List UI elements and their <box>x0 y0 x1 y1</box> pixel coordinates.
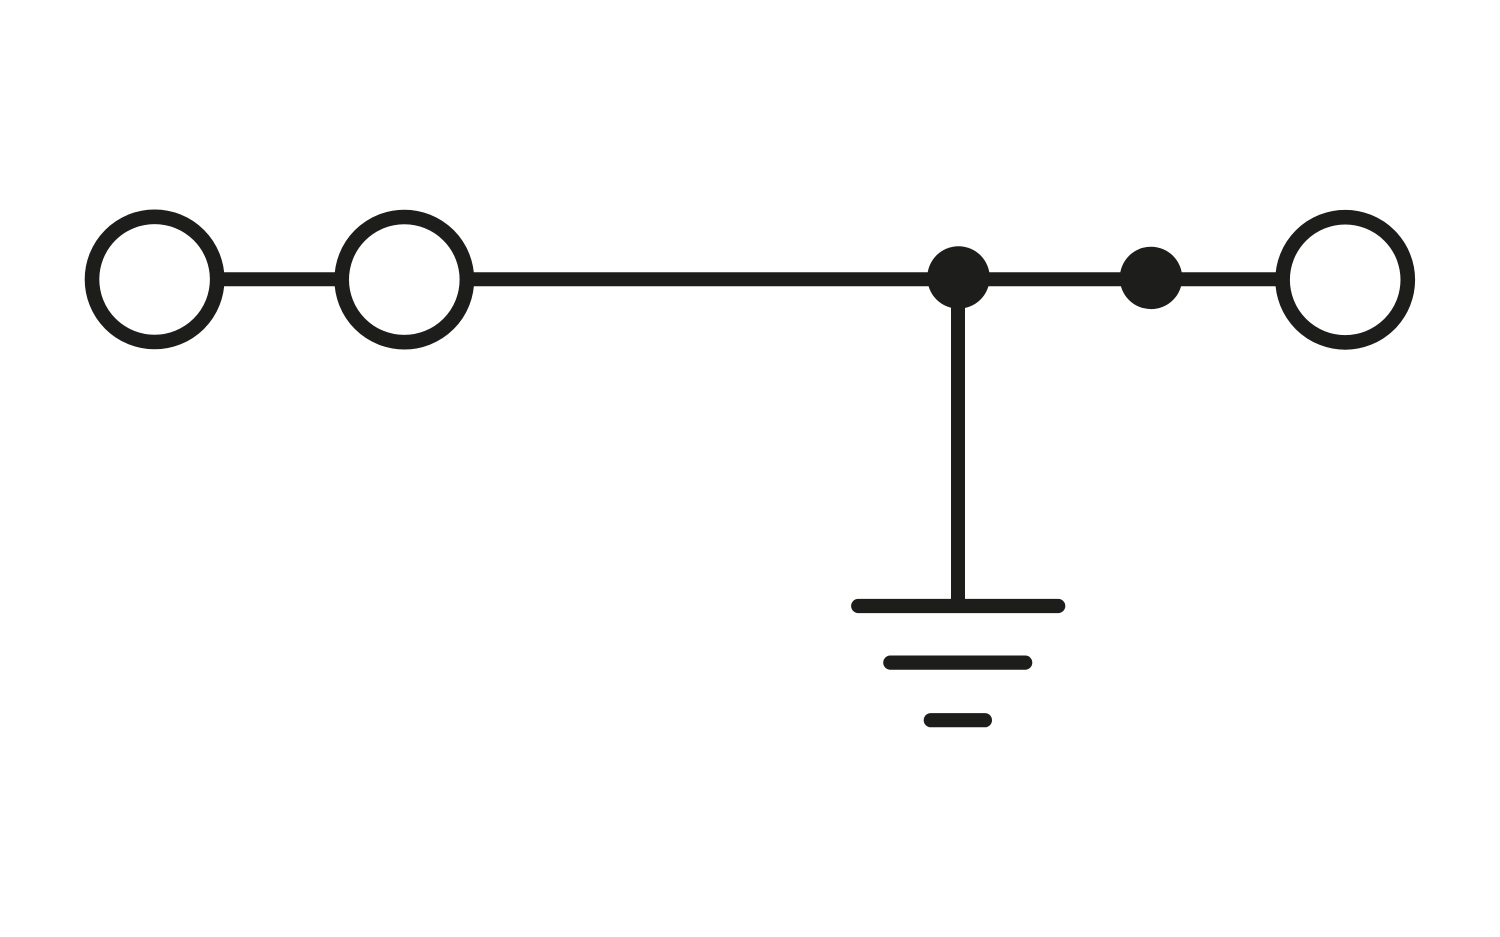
ground bar 1 (top, long) <box>858 599 1058 613</box>
junction node (wire tap to ground) <box>927 246 989 308</box>
terminal circle P3 (right plug contact) <box>1283 217 1408 342</box>
ground bar 2 (middle) <box>890 655 1025 669</box>
wire from P1 to P2 <box>220 272 340 286</box>
vertical wire to ground <box>951 277 965 606</box>
ground bar 3 (bottom, short) <box>931 713 985 727</box>
wire from P2 to right terminal P3 <box>470 272 1280 286</box>
terminal circle P1 (left plug contact) <box>92 217 217 342</box>
junction node (bridge contact) <box>1120 247 1182 309</box>
terminal circle P2 (second plug contact) <box>342 217 467 342</box>
